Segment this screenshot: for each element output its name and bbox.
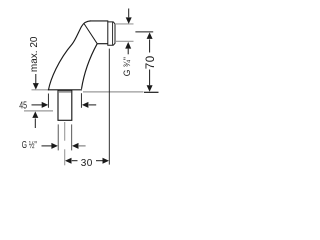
- svg-text:max. 20: max. 20: [29, 36, 40, 72]
- dim G3/4 up arrow: [125, 42, 131, 49]
- svg-text:45: 45: [19, 99, 27, 111]
- dim G3/4 down arrow: [128, 9, 130, 18]
- pipe G1/2: [58, 90, 72, 120]
- body left edge curve: [48, 21, 91, 90]
- dim 45 ext line right: [80, 93, 82, 108]
- body top edge: [90, 20, 109, 22]
- dim max20 upper arrow: [35, 74, 37, 84]
- svg-text:G ½": G ½": [22, 139, 37, 151]
- pipe centerline lower (gray): [64, 149, 66, 165]
- dim G1/2 right-point arrow: [42, 145, 53, 147]
- dim G3/4 top ref (gray): [116, 23, 134, 25]
- dim max20 lower arrow: [32, 111, 38, 118]
- pipe extension line left: [57, 124, 59, 150]
- dim G3/4 bottom ref (gray): [116, 40, 134, 42]
- outlet underside: [97, 43, 108, 45]
- connector block G3/4: [108, 22, 115, 45]
- dim 70 top ext: [135, 31, 153, 33]
- pipe centerline upper (gray): [64, 122, 66, 141]
- wall surface line right (gray): [83, 91, 144, 93]
- wall surface line left (gray): [32, 89, 49, 91]
- dim 45 ext line left: [47, 94, 49, 108]
- svg-text:G ¾": G ¾": [122, 57, 133, 76]
- svg-text:70: 70: [145, 55, 157, 69]
- dim G1/2 left-point arrow: [72, 143, 79, 149]
- dim 45 right arrow: [82, 102, 89, 108]
- body bottom edge: [48, 89, 82, 91]
- dim 30 line right: [96, 160, 103, 162]
- connector end line: [112, 22, 114, 45]
- dim 30 ext line right: [108, 49, 110, 165]
- dim 70 down arrow: [149, 70, 151, 86]
- dim 30 line left: [65, 158, 72, 164]
- dim 45 left arrow: [32, 104, 43, 106]
- svg-text:30: 30: [81, 158, 93, 169]
- dim 70 bottom ext: [144, 91, 159, 93]
- body outline (elbow): [48, 20, 107, 89]
- pipe extension line right: [71, 124, 73, 150]
- body fold line: [84, 24, 97, 44]
- wall lower line (gray, max20 bottom ref): [24, 110, 53, 112]
- wall line across pipe (gray): [59, 91, 71, 93]
- body right edge curve: [82, 44, 98, 89]
- dim 70 up arrow: [147, 32, 153, 39]
